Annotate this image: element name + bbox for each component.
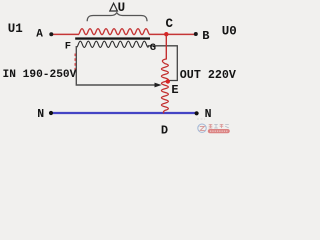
svg-text:N: N: [205, 108, 212, 121]
svg-text:N: N: [37, 108, 44, 121]
svg-text:U1: U1: [8, 22, 23, 36]
svg-text:IN 190-250V: IN 190-250V: [3, 69, 77, 81]
svg-text:U0: U0: [222, 24, 237, 38]
svg-text:U: U: [118, 1, 126, 15]
svg-text:F: F: [65, 41, 71, 53]
svg-text:OUT 220V: OUT 220V: [180, 68, 236, 82]
svg-text:E: E: [171, 83, 178, 97]
svg-text:G: G: [150, 42, 156, 54]
svg-text:A: A: [36, 28, 43, 40]
svg-text:D: D: [161, 123, 168, 136]
svg-text:B: B: [202, 29, 209, 43]
svg-text:C: C: [166, 17, 174, 31]
